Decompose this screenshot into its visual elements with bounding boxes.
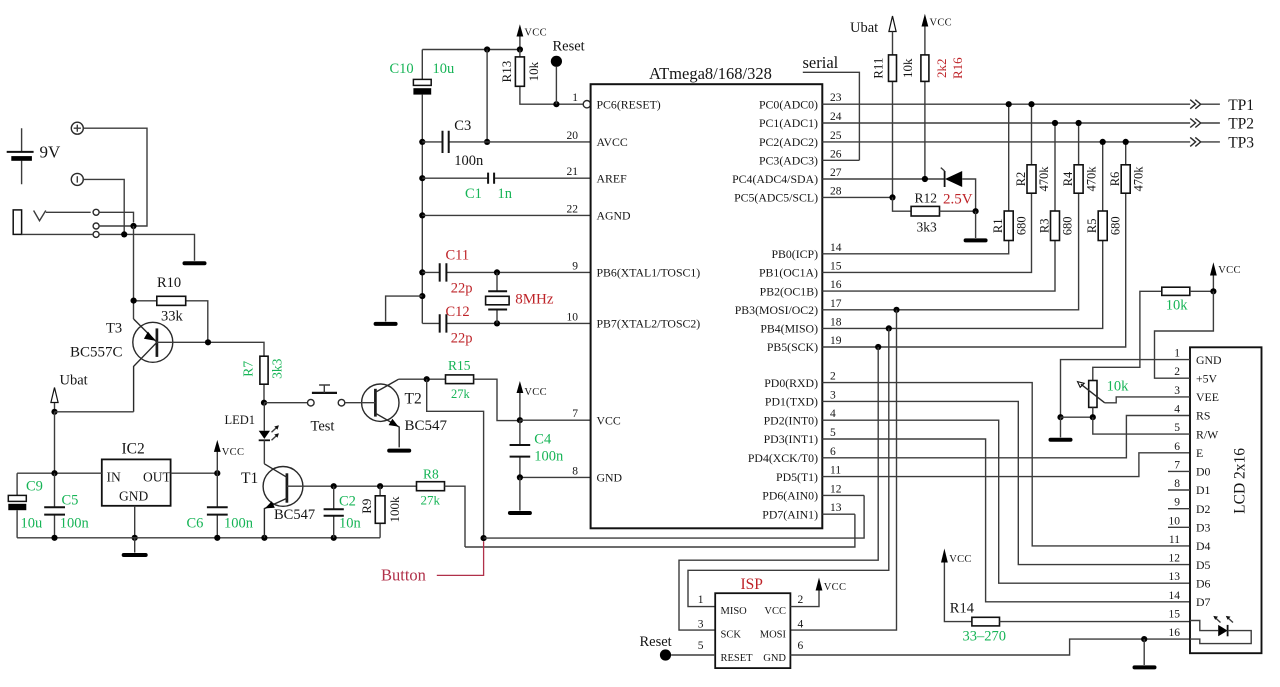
pushbutton Test (308, 385, 345, 406)
wire MOSI vertical (790, 310, 896, 630)
ground chip GND (510, 477, 530, 513)
resistor R14 (972, 617, 1190, 626)
capacitor C3 (422, 131, 590, 153)
resistor R11 (889, 32, 897, 198)
crystal Q1 8MHz (486, 272, 510, 323)
svg-text:470k: 470k (1037, 166, 1051, 192)
resistor R13 (515, 50, 583, 105)
node top rail / AVCC drop (484, 46, 490, 52)
svg-text:PD0(RXD): PD0(RXD) (764, 376, 818, 390)
wire PD6 stub (822, 494, 864, 496)
svg-text:C3: C3 (454, 118, 471, 134)
svg-text:PB0(ICP): PB0(ICP) (771, 247, 818, 261)
IC U1 ATmega box (591, 84, 823, 528)
svg-text:AREF: AREF (597, 171, 628, 185)
svg-text:470k: 470k (1084, 166, 1098, 192)
svg-text:T1: T1 (241, 470, 258, 487)
wire PD4 to LCD RS (822, 416, 1190, 458)
svg-text:VCC: VCC (524, 28, 547, 39)
svg-text:9: 9 (1174, 497, 1180, 509)
node pot bottom (1090, 414, 1096, 420)
node R3 top (1052, 120, 1058, 126)
svg-text:D7: D7 (1196, 595, 1211, 609)
svg-text:GND: GND (1196, 353, 1222, 367)
node collector/R15 junction (424, 376, 430, 382)
node IC2 gnd on rail (132, 535, 138, 541)
svg-text:PB3(MOSI/OC2): PB3(MOSI/OC2) (735, 303, 818, 317)
wire PD1 to LCD D5 (822, 401, 1190, 564)
VCC arrow at chip pin7 (517, 381, 547, 420)
LED backlight in LCD (1190, 616, 1251, 644)
svg-text:2k2: 2k2 (934, 58, 949, 78)
wire plus node down to T3 emitter (133, 226, 135, 319)
svg-text:3: 3 (1174, 385, 1180, 397)
svg-text:PB1(OC1A): PB1(OC1A) (759, 266, 818, 280)
svg-text:3k3: 3k3 (270, 358, 285, 379)
svg-text:GND: GND (763, 653, 786, 664)
resistor R15 (446, 375, 520, 421)
svg-text:2.5V: 2.5V (943, 192, 973, 208)
svg-text:3: 3 (698, 619, 704, 631)
VCC arrow ISP pin2 (790, 578, 846, 607)
svg-text:C5: C5 (62, 493, 79, 509)
svg-text:22p: 22p (451, 280, 473, 296)
svg-text:Test: Test (311, 419, 335, 435)
VCC arrow R14 (941, 549, 972, 622)
svg-text:1: 1 (572, 92, 578, 104)
svg-text:27k: 27k (421, 492, 441, 507)
svg-text:4: 4 (1174, 404, 1180, 416)
svg-text:PB4(MISO): PB4(MISO) (760, 322, 818, 336)
svg-text:13: 13 (830, 502, 842, 514)
svg-text:D6: D6 (1196, 576, 1211, 590)
node Ubat rail (51, 409, 57, 415)
node gnd rail left (1057, 414, 1063, 420)
capacitor C10 electrolytic (413, 50, 431, 324)
svg-text:VCC: VCC (949, 554, 972, 565)
svg-text:R10: R10 (157, 275, 181, 291)
svg-text:27: 27 (830, 167, 842, 179)
node R12 zener junction (973, 208, 979, 214)
svg-text:VEE: VEE (1196, 390, 1219, 404)
node VCC 10k junction (1210, 288, 1216, 294)
svg-text:R12: R12 (915, 191, 938, 206)
svg-text:PC1(ADC1): PC1(ADC1) (759, 116, 818, 130)
node C5 top (51, 470, 57, 476)
svg-text:33k: 33k (161, 309, 184, 325)
svg-text:VCC: VCC (222, 447, 245, 458)
svg-text:12: 12 (830, 483, 842, 495)
node R1 top (1006, 101, 1012, 107)
ground T2 emitter (389, 449, 409, 453)
svg-text:BC547: BC547 (405, 418, 448, 434)
node T1 emitter on rail (261, 535, 267, 541)
Ubat arrow left (51, 388, 58, 412)
LCD stub pin9 D2 (1168, 508, 1190, 510)
svg-text:MOSI: MOSI (760, 630, 787, 641)
svg-text:10k: 10k (900, 58, 915, 78)
svg-text:LCD 2x16: LCD 2x16 (1232, 448, 1249, 514)
node C6 bottom (214, 535, 220, 541)
LCD stub pin7 D0 (1168, 470, 1190, 472)
wire button node to PD6 leg (484, 495, 864, 538)
node C5 bottom (51, 535, 57, 541)
svg-text:10u: 10u (433, 61, 455, 77)
wire OUT rail (171, 472, 218, 474)
svg-text:PD1(TXD): PD1(TXD) (765, 395, 818, 409)
wire GND pin8 to chip (520, 476, 591, 478)
ground jack (185, 261, 205, 265)
svg-text:22p: 22p (451, 331, 473, 347)
capacitor C2 (324, 486, 344, 538)
ground left rail tap (376, 296, 423, 324)
wire bottom ground rail (17, 537, 380, 539)
svg-text:13: 13 (1169, 571, 1181, 583)
wire R12 right to zener node (940, 210, 976, 212)
svg-text:VCC: VCC (764, 606, 786, 617)
capacitor C11 (422, 263, 590, 281)
VCC arrow at C6 (214, 440, 244, 473)
wire +5V route (1155, 291, 1214, 378)
pin1 open circle at chip (583, 101, 590, 108)
svg-text:IN: IN (107, 470, 121, 485)
svg-text:D1: D1 (1196, 483, 1211, 497)
svg-text:15: 15 (1169, 609, 1181, 621)
svg-text:5: 5 (830, 427, 836, 439)
node R7 bottom / LED / Test (261, 400, 267, 406)
svg-text:6: 6 (798, 640, 804, 652)
svg-text:C11: C11 (446, 248, 470, 264)
wire ISP GND to LCD pin16 (790, 639, 1190, 655)
node reset stem (553, 101, 559, 107)
LCD stub pin10 D3 (1168, 526, 1190, 528)
resistor R7 (260, 356, 268, 403)
wire PC3 stub (822, 159, 859, 161)
svg-text:PC6(RESET): PC6(RESET) (597, 97, 661, 111)
wire T3 base to R7 (157, 342, 264, 356)
svg-text:R5: R5 (1085, 219, 1099, 234)
svg-text:R6: R6 (1108, 172, 1122, 187)
svg-text:4: 4 (830, 408, 836, 420)
node PB6 crystal (494, 269, 500, 275)
transistor T1 BC547 (263, 464, 303, 538)
svg-text:10k: 10k (526, 61, 541, 81)
svg-text:Ubat: Ubat (850, 20, 878, 36)
svg-text:RESET: RESET (721, 653, 754, 664)
svg-text:C1: C1 (465, 186, 482, 202)
resistor R9 (375, 486, 385, 538)
svg-text:8MHz: 8MHz (515, 291, 554, 307)
resistor R16 (921, 55, 929, 179)
wire AGND line (422, 214, 590, 216)
svg-text:D2: D2 (1196, 502, 1211, 516)
wire AVCC vertical drop (486, 50, 488, 142)
svg-text:IC2: IC2 (122, 441, 145, 458)
wire jack middle to plus node (99, 225, 133, 227)
IC2 voltage regulator box (102, 459, 172, 505)
svg-text:SCK: SCK (721, 630, 742, 641)
svg-text:9: 9 (572, 260, 578, 272)
svg-text:Reset: Reset (553, 38, 585, 54)
TP2 connector chevrons (1190, 119, 1220, 128)
svg-text:D4: D4 (1196, 539, 1211, 553)
wire VCC line to chip (520, 419, 591, 421)
wire Ubat rail to T3 collector (55, 411, 134, 413)
wire PC2 to TP3 (822, 141, 1190, 143)
capacitor C5 (44, 473, 65, 538)
VCC arrow at R16 (922, 14, 953, 55)
svg-text:6: 6 (1174, 441, 1180, 453)
wire R/W to gnd rail (1093, 417, 1190, 434)
svg-text:OUT: OUT (143, 470, 171, 485)
svg-text:AVCC: AVCC (597, 135, 628, 149)
svg-text:R14: R14 (950, 600, 975, 616)
svg-text:BC557C: BC557C (70, 345, 123, 361)
svg-text:26: 26 (830, 148, 842, 160)
svg-text:R3: R3 (1037, 219, 1051, 234)
svg-text:PD2(INT0): PD2(INT0) (764, 413, 818, 427)
ground LCD contrast (1051, 417, 1071, 440)
node R16 on PC4 (922, 176, 928, 182)
wire IN rail (17, 472, 102, 474)
node R11 on PC5 (889, 194, 895, 200)
node R9 top (377, 483, 383, 489)
svg-text:GND: GND (597, 471, 623, 485)
ISP header box (715, 593, 790, 668)
svg-text:14: 14 (830, 242, 842, 254)
ground LCD gnd rail (1135, 639, 1155, 667)
svg-text:PC0(ADC0): PC0(ADC0) (759, 97, 818, 111)
TP1 connector chevrons (1190, 100, 1220, 109)
svg-text:LED1: LED1 (225, 413, 256, 427)
wire PD0 to LCD D4 (822, 383, 1190, 546)
wire PD2 to LCD D6 (822, 420, 1190, 583)
svg-text:9V: 9V (40, 143, 62, 162)
svg-text:680: 680 (1014, 216, 1028, 235)
svg-text:5: 5 (1174, 422, 1180, 434)
svg-text:1: 1 (1174, 348, 1180, 360)
svg-text:AGND: AGND (597, 209, 632, 223)
svg-text:680: 680 (1108, 216, 1122, 235)
wire gnd rail (1061, 416, 1093, 418)
wire Button red callout (437, 541, 484, 575)
capacitor C12 (422, 314, 590, 332)
svg-text:10k: 10k (1166, 298, 1189, 314)
svg-text:17: 17 (830, 298, 842, 310)
node rail AREF (419, 175, 425, 181)
svg-text:C2: C2 (339, 494, 356, 510)
resistor R4 (1074, 123, 1083, 193)
svg-text:100k: 100k (387, 496, 402, 523)
svg-text:11: 11 (1169, 534, 1180, 546)
node battery plus junction (130, 223, 136, 229)
svg-text:R8: R8 (423, 467, 439, 482)
node rail AGND (419, 212, 425, 218)
resistor R1 (1004, 104, 1013, 240)
svg-text:16: 16 (830, 279, 842, 291)
IC2 GND stem (134, 506, 136, 538)
svg-text:serial: serial (803, 53, 839, 72)
Ubat arrow right (889, 16, 896, 32)
node button junction (481, 535, 487, 541)
svg-text:10: 10 (567, 311, 579, 323)
svg-text:19: 19 (830, 335, 842, 347)
battery minus terminal (71, 173, 83, 185)
svg-text:PD4(XCK/T0): PD4(XCK/T0) (748, 451, 818, 465)
svg-text:D5: D5 (1196, 558, 1211, 572)
node PB5 SCK (875, 344, 881, 350)
wire jack tip to plus node (99, 212, 133, 222)
svg-text:VCC: VCC (524, 387, 547, 398)
svg-text:R16: R16 (950, 57, 965, 79)
svg-text:T3: T3 (106, 321, 122, 337)
svg-text:10n: 10n (339, 516, 362, 532)
svg-text:R9: R9 (359, 499, 374, 514)
svg-text:VCC: VCC (824, 582, 847, 593)
svg-text:RS: RS (1196, 409, 1210, 423)
LCD stub pin8 D1 (1168, 489, 1190, 491)
wire PD5 to LCD E (822, 453, 1190, 477)
svg-text:6: 6 (830, 446, 836, 458)
svg-text:E: E (1196, 446, 1203, 460)
wire PB4 to R5 (822, 241, 1102, 329)
ground IC2 (124, 538, 146, 555)
svg-text:PB5(SCK): PB5(SCK) (767, 340, 818, 354)
node rail AVCC (419, 139, 425, 145)
resistor R10 (134, 296, 208, 342)
node PB4 MISO (886, 325, 892, 331)
svg-text:TP2: TP2 (1228, 116, 1254, 133)
svg-text:PC3(ADC3): PC3(ADC3) (759, 154, 818, 168)
svg-text:10: 10 (1169, 515, 1181, 527)
node R10 left on emitter wire (131, 298, 137, 304)
svg-text:2: 2 (798, 594, 804, 606)
wire node to Test button (264, 402, 308, 404)
node sleeve junction (121, 231, 127, 237)
resistor R12 (911, 206, 939, 216)
battery BAT 9V symbol (7, 128, 34, 184)
resistor R2 (1027, 104, 1036, 193)
node GND pin8 junction (517, 474, 523, 480)
svg-text:100n: 100n (534, 448, 564, 464)
node VCC pin7 junction (517, 417, 523, 423)
wire jack sleeve to ground (99, 234, 194, 260)
svg-text:10k: 10k (1107, 379, 1130, 395)
svg-text:C4: C4 (534, 431, 552, 447)
svg-text:TP3: TP3 (1228, 135, 1254, 152)
transistor T2 BC547 (345, 379, 399, 447)
capacitor C4 (510, 420, 531, 477)
svg-text:C12: C12 (446, 304, 470, 320)
svg-text:R/W: R/W (1196, 427, 1219, 441)
wire LCD GND pin1 to ground (1061, 360, 1191, 418)
wire R8 to PD7 leg (465, 514, 855, 547)
svg-text:8: 8 (572, 465, 578, 477)
node rail PB6 (419, 269, 425, 275)
transistor T3 BC557C (133, 319, 173, 412)
svg-text:ATmega8/168/328: ATmega8/168/328 (649, 64, 772, 83)
node R5 top (1100, 139, 1106, 145)
node PB7 crystal (494, 320, 500, 326)
svg-text:PB6(XTAL1/TOSC1): PB6(XTAL1/TOSC1) (597, 266, 701, 280)
wire PC5 jog to R12 (893, 197, 912, 211)
wire PB5 to R6 (822, 193, 1125, 347)
svg-text:TP1: TP1 (1228, 97, 1254, 114)
svg-text:C9: C9 (26, 479, 43, 495)
wire SCK vertical (679, 347, 878, 630)
svg-text:27k: 27k (451, 387, 471, 401)
node R2 top (1028, 101, 1034, 107)
svg-text:PB7(XTAL2/TOSC2): PB7(XTAL2/TOSC2) (597, 317, 701, 331)
svg-text:470k: 470k (1131, 166, 1145, 192)
svg-text:R11: R11 (870, 58, 885, 79)
svg-text:12: 12 (1169, 553, 1181, 565)
svg-text:1: 1 (698, 594, 704, 606)
Reset test point top (551, 56, 562, 104)
resistor R5 (1098, 142, 1107, 241)
svg-text:GND: GND (119, 489, 148, 504)
svg-text:2: 2 (830, 371, 836, 383)
svg-text:T2: T2 (405, 391, 422, 408)
resistor 10k LCD pullup (1093, 287, 1214, 380)
capacitor C1 (422, 173, 590, 184)
svg-text:Button: Button (381, 566, 426, 585)
svg-text:24: 24 (830, 111, 842, 123)
svg-text:25: 25 (830, 130, 842, 142)
wire PD7 stub (822, 513, 855, 515)
wire minus terminal down (83, 179, 124, 234)
svg-text:ISP: ISP (741, 576, 763, 593)
wire top VCC rail (422, 49, 520, 51)
svg-text:VCC: VCC (930, 18, 953, 29)
Reset test point ISP (660, 649, 715, 660)
node C2 top (331, 483, 337, 489)
potentiometer 10k contrast (1078, 381, 1191, 418)
resistor R6 (1121, 142, 1130, 193)
wire collector node down to button node (427, 379, 484, 538)
svg-text:7: 7 (1174, 459, 1180, 471)
node R6 top (1123, 139, 1129, 145)
wire serial bracket (803, 72, 860, 160)
wire T2 collector row (399, 378, 446, 380)
svg-text:Reset: Reset (640, 634, 672, 650)
svg-text:4: 4 (798, 619, 804, 631)
svg-text:10u: 10u (21, 516, 43, 532)
svg-text:21: 21 (567, 166, 579, 178)
svg-text:R15: R15 (448, 358, 471, 373)
node R4 top (1076, 120, 1082, 126)
svg-text:2: 2 (1174, 366, 1180, 378)
VCC arrow top reset (517, 24, 547, 49)
svg-text:R4: R4 (1061, 171, 1075, 186)
svg-text:18: 18 (830, 316, 842, 328)
svg-text:7: 7 (572, 408, 578, 420)
LED LED1 (259, 403, 279, 464)
svg-text:PD6(AIN0): PD6(AIN0) (762, 489, 818, 503)
node GND rail LCD (1141, 636, 1147, 642)
svg-text:100n: 100n (224, 516, 254, 532)
wire PC4 line (822, 178, 944, 180)
svg-text:R7: R7 (241, 361, 256, 377)
wire PC5 line (822, 196, 892, 198)
svg-text:VCC: VCC (597, 413, 621, 427)
svg-text:PD5(T1): PD5(T1) (776, 470, 818, 484)
svg-text:R2: R2 (1014, 172, 1028, 187)
TP3 connector chevrons (1190, 137, 1220, 146)
wire PC1 to TP2 (822, 122, 1190, 124)
svg-text:R1: R1 (991, 219, 1005, 234)
capacitor C9 electrolytic (8, 473, 26, 538)
